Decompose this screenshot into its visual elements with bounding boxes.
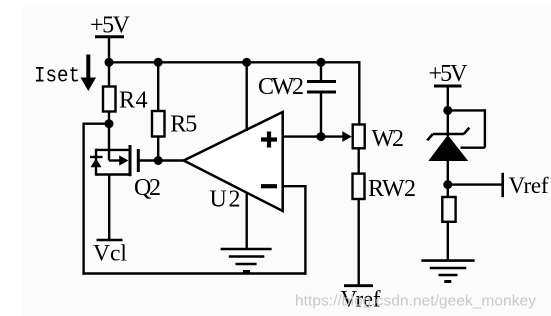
svg-text:R4: R4: [119, 88, 148, 114]
svg-text:Iset: Iset: [34, 64, 80, 89]
svg-text:U2: U2: [210, 187, 241, 213]
svg-text:R5: R5: [170, 112, 197, 138]
svg-text:+5V: +5V: [429, 61, 469, 87]
svg-text:RW2: RW2: [368, 176, 416, 202]
svg-text:Vref: Vref: [509, 173, 549, 198]
svg-text:Q2: Q2: [134, 175, 161, 201]
svg-text:W2: W2: [372, 126, 405, 152]
svg-text:https://blog.csdn.net/geek_mon: https://blog.csdn.net/geek_monkey: [295, 292, 537, 309]
svg-text:Vcl: Vcl: [93, 241, 127, 267]
svg-text:+5V: +5V: [90, 12, 131, 38]
svg-text:CW2: CW2: [258, 74, 304, 100]
